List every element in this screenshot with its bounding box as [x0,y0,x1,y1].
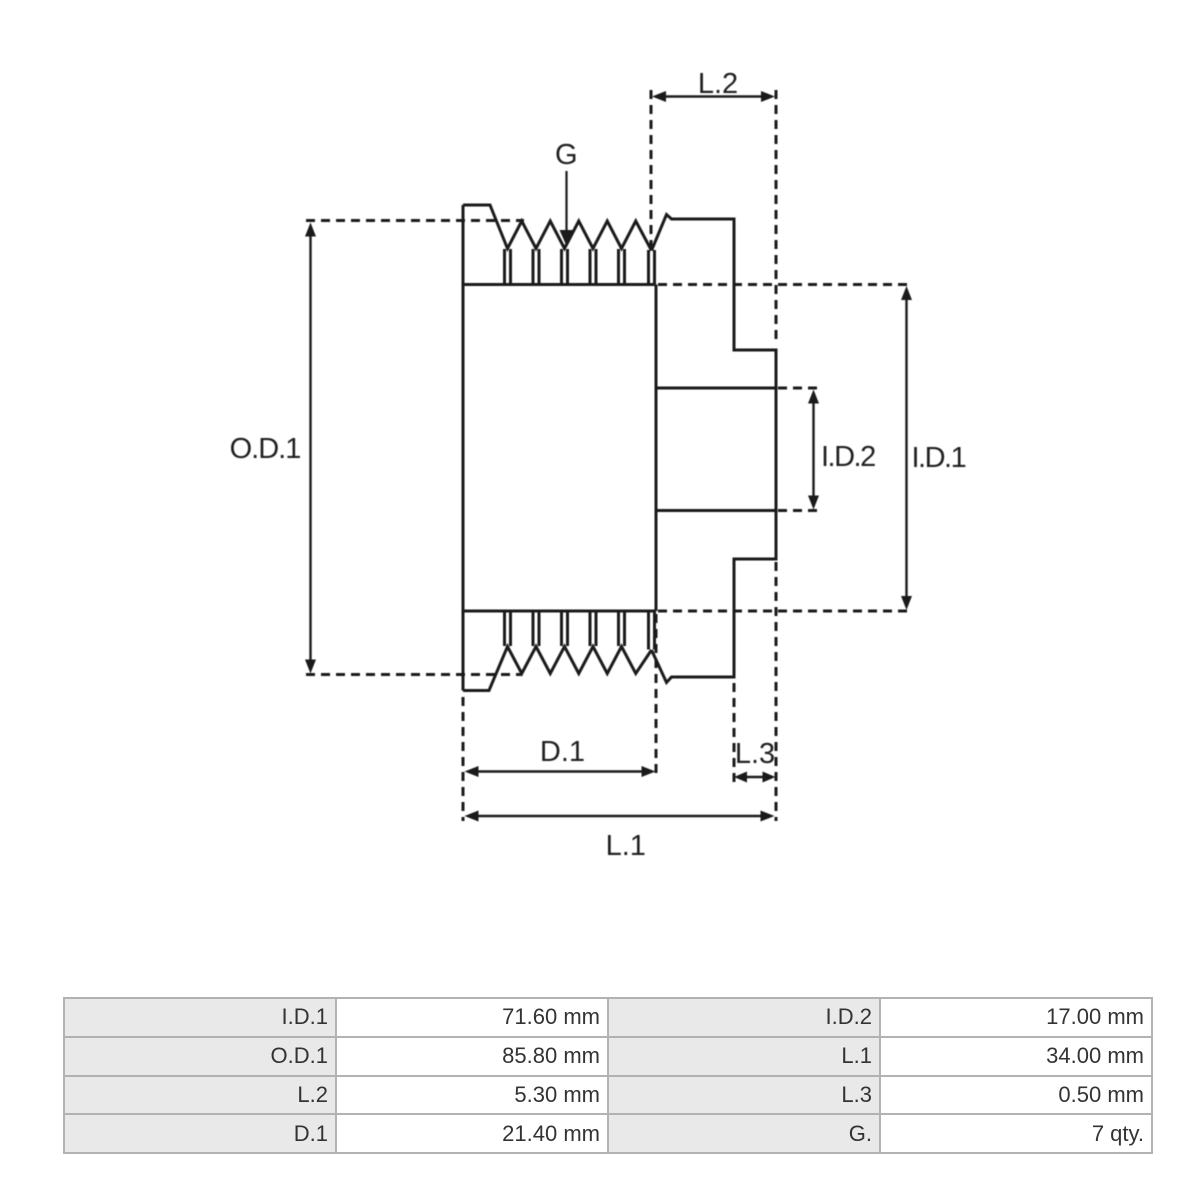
extension line O.D.1 top [306,219,524,222]
table row L.2 [64,1076,336,1115]
extension line L.1 right [775,562,778,821]
hub outline right [652,215,777,683]
leader arrow G [565,171,567,234]
extension line L.2 right [775,90,778,341]
bottom rib profile [463,647,652,691]
dimension L.2 [663,95,764,97]
svg-text:D.1: D.1 [540,736,585,768]
extension line I.D.2 bottom [778,509,817,512]
table row I.D.1 [64,998,336,1037]
extension line L.3 left [733,683,736,783]
svg-text:I.D.1: I.D.1 [912,442,966,474]
extension line L.1 left [462,697,465,821]
pulley body rectangle [463,285,656,612]
svg-text:O.D.1: O.D.1 [230,433,301,465]
top rib slot walls [505,249,655,285]
pulley left edge [462,205,465,691]
bore lines I.D.2 [657,388,777,511]
svg-text:I.D.2: I.D.2 [821,441,875,473]
dimension I.D.2 [812,400,814,499]
dimension L.3 [744,776,766,778]
extension line I.D.1 top [658,283,910,286]
table row O.D.1 [64,1037,336,1076]
dimension O.D.1 [309,234,311,662]
extension line I.D.1 bottom [658,610,910,613]
svg-text:L.3: L.3 [735,738,775,770]
dimension D.1 [475,770,645,772]
svg-text:G: G [555,139,578,171]
extension line I.D.2 top [778,387,817,390]
extension line O.D.1 bottom [306,673,521,676]
svg-text:L.2: L.2 [698,68,738,100]
bottom rib slot walls [505,611,655,650]
extension line D.1 right [655,614,658,777]
dimension L.1 [475,815,764,817]
svg-text:L.1: L.1 [606,830,646,862]
table row D.1 [64,1114,336,1153]
extension line L.2 left [650,90,653,251]
dimension I.D.1 [905,297,907,599]
dimension table [63,997,1153,1154]
top rib profile [463,205,652,251]
